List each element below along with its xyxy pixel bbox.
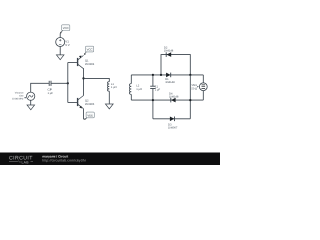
svg-text:1 µH: 1 µH bbox=[111, 86, 117, 89]
wire left rail top bbox=[130, 75, 132, 84]
diode D4 (middle rail, pointing left) bbox=[171, 98, 176, 103]
label D4 1N4148 bbox=[169, 93, 179, 99]
transistor Q2 bbox=[78, 96, 84, 109]
wire Q1 base bbox=[68, 62, 77, 64]
footer bar bbox=[0, 153, 220, 166]
ground (below V2) bbox=[27, 105, 35, 110]
label Q1 2N3904 bbox=[85, 59, 95, 66]
wire bases vertical bbox=[67, 63, 69, 103]
transistor Q1 bbox=[78, 55, 84, 68]
svg-text:10.86 MHz: 10.86 MHz bbox=[12, 97, 24, 100]
diode D1 (top rail, pointing right) bbox=[166, 73, 171, 78]
credit text bbox=[42, 154, 86, 162]
svg-text:2N3906: 2N3906 bbox=[85, 103, 95, 106]
wire right rail bbox=[189, 75, 191, 119]
wire capacitor branch lower bbox=[152, 89, 154, 119]
svg-text:1N4148: 1N4148 bbox=[164, 50, 174, 53]
label L2 1 uH bbox=[136, 84, 142, 91]
voltage source V1 bbox=[56, 38, 65, 47]
label Vsource sine 10.86 MHz bbox=[12, 92, 26, 101]
wire Q1 emitter down / mid node bbox=[83, 68, 85, 95]
wire bottom rail bbox=[153, 118, 190, 120]
net flag VCC (at Q1) bbox=[84, 46, 94, 55]
meter VM1 bbox=[199, 83, 207, 91]
diode D2 (on loop, pointing left) bbox=[166, 52, 171, 57]
diode D3 (bottom rail, pointing right) bbox=[170, 117, 175, 122]
wire left rail bottom bbox=[130, 94, 132, 100]
net flag VCC (at V1) bbox=[60, 25, 70, 34]
label C1 1 uF bbox=[155, 85, 161, 91]
capacitor C1 bbox=[150, 86, 155, 88]
junction mid node bbox=[82, 77, 84, 79]
label V1 9 V bbox=[65, 40, 69, 47]
wire capacitor branch bbox=[152, 75, 154, 86]
wire mid node to L1 bbox=[84, 78, 110, 81]
svg-text:VEE: VEE bbox=[87, 114, 93, 118]
ground (below L1) bbox=[105, 104, 113, 109]
junction loop left/top rail bbox=[160, 74, 162, 76]
svg-text:LAB: LAB bbox=[22, 160, 30, 164]
wire diode loop bbox=[161, 55, 190, 75]
wire L1 to ground bbox=[108, 91, 110, 104]
svg-text:50 Ω: 50 Ω bbox=[191, 87, 197, 90]
CircuitLab logo bbox=[9, 155, 33, 164]
label D1 1N4148 bbox=[165, 78, 175, 84]
wire V2 top to input rail bbox=[31, 83, 49, 92]
svg-text:1N4007: 1N4007 bbox=[168, 127, 178, 130]
svg-text:VCC: VCC bbox=[63, 26, 69, 30]
inductor L1 bbox=[108, 82, 110, 92]
wire middle rail bbox=[131, 99, 203, 101]
label D2 1N4148 bbox=[164, 46, 174, 52]
label VM1 50 Ohm bbox=[191, 84, 199, 90]
wire Q2 emitter down bbox=[83, 109, 85, 120]
label C2 1 uF bbox=[48, 88, 54, 95]
wire V1 bottom bbox=[59, 46, 61, 55]
wire V1 top bbox=[59, 33, 61, 37]
svg-text:1 µF: 1 µF bbox=[155, 89, 161, 92]
svg-text:http://circuitlab.com/c6y3hr: http://circuitlab.com/c6y3hr bbox=[42, 159, 86, 163]
label L1 1 uH bbox=[111, 83, 117, 89]
svg-text:1N4148: 1N4148 bbox=[165, 81, 175, 84]
junction loop right/top rail bbox=[189, 74, 191, 76]
wire meter bottom bbox=[202, 91, 204, 101]
svg-text:1 µF: 1 µF bbox=[48, 92, 54, 95]
svg-text:1 µH: 1 µH bbox=[136, 88, 142, 91]
wire input rail to bases bbox=[51, 82, 68, 84]
wire V2 bottom bbox=[30, 100, 32, 105]
ground (below V1) bbox=[56, 55, 64, 60]
label D3 1N4007 bbox=[168, 124, 178, 130]
wire Q2 base bbox=[68, 102, 77, 104]
wire top rail bbox=[131, 74, 203, 76]
junction cap/middle rail bbox=[152, 99, 154, 101]
svg-text:2N3904: 2N3904 bbox=[85, 63, 95, 66]
label Q2 2N3906 bbox=[85, 100, 95, 107]
capacitor C2 bbox=[49, 81, 51, 86]
inductor L2 bbox=[129, 84, 131, 95]
svg-text:1N4148: 1N4148 bbox=[169, 96, 179, 99]
junction cap/top rail bbox=[152, 74, 154, 76]
junction right rail/middle rail bbox=[189, 99, 191, 101]
sine source V2 bbox=[27, 92, 35, 100]
wire meter top bbox=[202, 75, 204, 83]
svg-text:VCC: VCC bbox=[87, 48, 93, 52]
junction input/base node bbox=[67, 82, 69, 84]
net flag VEE (at Q2 emitter) bbox=[84, 112, 94, 120]
svg-text:9 V: 9 V bbox=[65, 43, 69, 47]
